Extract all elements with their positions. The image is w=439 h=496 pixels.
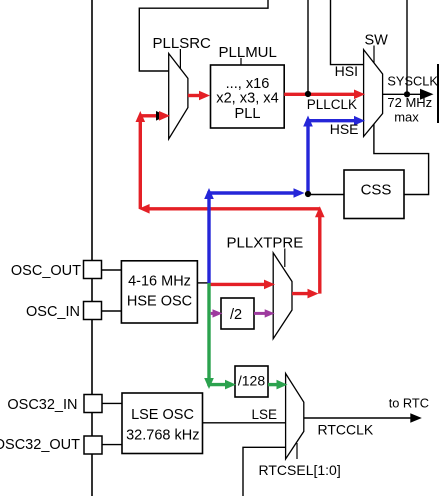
svg-text:OSC32_IN: OSC32_IN [7, 397, 77, 413]
svg-text:PLLXTPRE: PLLXTPRE [227, 235, 304, 252]
svg-text:HSE: HSE [330, 121, 359, 137]
svg-text:LSE OSC: LSE OSC [131, 407, 194, 423]
svg-text:4-16 MHz: 4-16 MHz [128, 274, 191, 290]
svg-text:OSC_OUT: OSC_OUT [11, 263, 81, 279]
svg-text:max: max [394, 109, 419, 124]
svg-text:PLLSRC: PLLSRC [153, 35, 212, 52]
svg-text:/128: /128 [238, 373, 265, 389]
svg-text:OSC_IN: OSC_IN [26, 304, 80, 320]
svg-text:..., x16: ..., x16 [226, 76, 270, 92]
svg-text:PLLCLK: PLLCLK [307, 97, 357, 112]
svg-text:/2: /2 [230, 307, 242, 323]
svg-text:CSS: CSS [361, 182, 392, 199]
svg-text:SW: SW [365, 33, 389, 49]
svg-text:32.768 kHz: 32.768 kHz [126, 428, 199, 444]
svg-text:LSE: LSE [251, 407, 277, 422]
svg-text:PLLMUL: PLLMUL [219, 44, 277, 61]
svg-text:HSE OSC: HSE OSC [127, 294, 192, 310]
svg-text:HSI: HSI [335, 63, 358, 79]
svg-text:to RTC: to RTC [389, 395, 429, 410]
svg-text:x2, x3, x4: x2, x3, x4 [216, 90, 278, 106]
svg-text:OSC32_OUT: OSC32_OUT [0, 437, 80, 453]
svg-text:PLL: PLL [235, 106, 261, 122]
svg-text:72 MHz: 72 MHz [387, 95, 432, 110]
svg-text:RTCSEL[1:0]: RTCSEL[1:0] [259, 462, 341, 478]
svg-text:SYSCLK: SYSCLK [387, 74, 438, 89]
svg-text:RTCCLK: RTCCLK [318, 421, 374, 437]
